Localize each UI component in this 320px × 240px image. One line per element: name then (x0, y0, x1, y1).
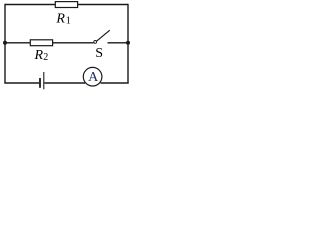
resistor R2 (30, 40, 52, 46)
wire bottom left segment (4, 82, 39, 84)
svg-text:S: S (95, 46, 103, 61)
wire middle right segment (108, 42, 129, 44)
svg-text:A: A (88, 70, 99, 85)
svg-text:R: R (55, 12, 65, 27)
wire bottom middle segment (44, 82, 85, 84)
svg-text:R: R (34, 48, 44, 63)
svg-text:2: 2 (43, 52, 48, 63)
battery cell short plate (39, 78, 41, 88)
battery cell long plate (43, 72, 45, 89)
node right junction (126, 41, 130, 45)
wire right (127, 4, 129, 83)
node left junction (3, 41, 7, 45)
svg-text:1: 1 (66, 16, 71, 27)
wire bottom right segment (101, 82, 129, 84)
ammeter A1 circle (83, 67, 102, 86)
wire middle left segment (5, 42, 94, 44)
resistor R1 (55, 2, 77, 8)
wire top (5, 4, 128, 6)
switch S lever (96, 30, 109, 41)
wire left (4, 4, 6, 83)
switch S pivot (94, 41, 97, 44)
